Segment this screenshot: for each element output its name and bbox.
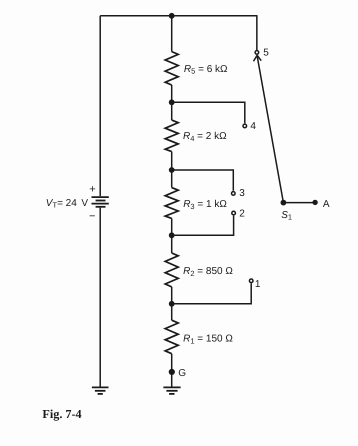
svg-text:R5 = 6 kΩ: R5 = 6 kΩ [184, 64, 228, 76]
svg-text:S1: S1 [281, 210, 292, 222]
svg-text:R2 = 850 Ω: R2 = 850 Ω [183, 266, 233, 278]
svg-text:2: 2 [239, 209, 245, 220]
svg-text:−: − [89, 210, 95, 222]
svg-text:R3 = 1 kΩ: R3 = 1 kΩ [183, 199, 227, 211]
svg-text:1: 1 [255, 279, 261, 290]
svg-text:G: G [178, 368, 186, 379]
svg-text:3: 3 [239, 188, 245, 199]
svg-text:A: A [323, 199, 330, 210]
svg-text:5: 5 [263, 48, 269, 59]
svg-text:4: 4 [250, 121, 256, 132]
svg-text:VT= 24 V: VT= 24 V [46, 198, 89, 210]
svg-text:R4 = 2 kΩ: R4 = 2 kΩ [183, 131, 227, 143]
svg-text:Fig. 7-4: Fig. 7-4 [42, 407, 81, 421]
svg-text:+: + [89, 184, 95, 196]
svg-text:R1 = 150 Ω: R1 = 150 Ω [183, 334, 233, 346]
